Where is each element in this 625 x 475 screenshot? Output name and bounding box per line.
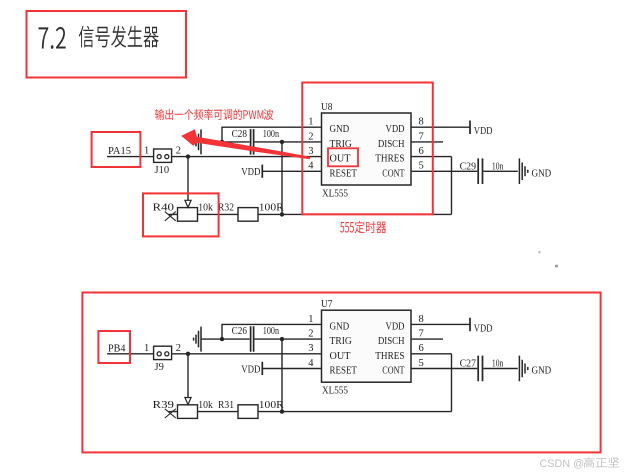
svg-text:100n: 100n [263,129,280,140]
svg-text:GND: GND [532,168,552,179]
svg-text:2: 2 [308,131,313,142]
svg-text:4: 4 [308,161,314,172]
svg-text:R31: R31 [218,400,234,411]
svg-text:7: 7 [419,329,424,340]
svg-text:10n: 10n [492,359,504,370]
svg-text:CONT: CONT [382,167,404,179]
svg-text:C28: C28 [232,129,247,140]
svg-text:R39: R39 [153,400,175,411]
svg-text:J9: J9 [155,362,164,373]
svg-text:8: 8 [419,117,424,128]
svg-text:GND: GND [330,320,350,332]
svg-text:XL555: XL555 [322,385,348,397]
svg-text:100R: 100R [259,400,284,411]
svg-text:GND: GND [330,123,350,135]
svg-text:C26: C26 [232,326,247,337]
svg-text:3: 3 [308,146,313,157]
svg-text:DISCH: DISCH [378,335,405,347]
svg-text:PB4: PB4 [108,342,126,354]
svg-text:C29: C29 [460,161,476,172]
svg-text:6: 6 [419,343,424,354]
svg-text:2: 2 [308,329,313,340]
svg-text:7: 7 [419,131,424,142]
svg-text:THRES: THRES [375,350,404,362]
svg-text:GND: GND [532,366,552,377]
svg-text:TRIG: TRIG [330,335,352,347]
svg-text:10n: 10n [492,161,504,172]
svg-text:3: 3 [308,343,313,354]
svg-text:VDD: VDD [241,166,260,178]
svg-text:J10: J10 [155,165,170,176]
svg-text:VDD: VDD [386,320,405,332]
svg-text:OUT: OUT [330,153,351,165]
svg-text:4: 4 [308,358,314,369]
svg-text:R40: R40 [153,203,175,214]
svg-text:2: 2 [176,343,181,354]
svg-text:OUT: OUT [330,350,351,362]
svg-text:10k: 10k [198,400,213,411]
svg-text:1: 1 [308,314,313,325]
svg-text:1: 1 [144,146,149,157]
svg-text:1: 1 [308,117,313,128]
svg-text:RESET: RESET [330,167,358,179]
svg-text:RESET: RESET [330,365,358,377]
svg-text:R32: R32 [218,203,234,214]
svg-text:100n: 100n [263,326,280,337]
svg-text:VDD: VDD [474,322,493,334]
svg-text:VDD: VDD [241,363,260,375]
svg-text:8: 8 [419,314,424,325]
svg-text:CONT: CONT [382,365,404,377]
svg-text:5: 5 [419,358,424,369]
svg-text:6: 6 [419,146,424,157]
svg-text:U7: U7 [321,298,333,310]
svg-text:VDD: VDD [474,125,493,137]
svg-text:PA15: PA15 [108,145,131,157]
svg-text:5: 5 [419,161,424,172]
svg-text:100R: 100R [259,203,284,214]
svg-text:DISCH: DISCH [378,138,405,150]
svg-text:XL555: XL555 [322,188,348,200]
svg-text:VDD: VDD [386,123,405,135]
svg-text:THRES: THRES [375,153,404,165]
svg-text:2: 2 [176,146,181,157]
svg-text:C27: C27 [460,359,476,370]
svg-text:10k: 10k [198,203,213,214]
svg-text:U8: U8 [321,101,333,113]
svg-text:CSDN @: CSDN @ [540,458,585,470]
svg-text:1: 1 [144,343,149,354]
